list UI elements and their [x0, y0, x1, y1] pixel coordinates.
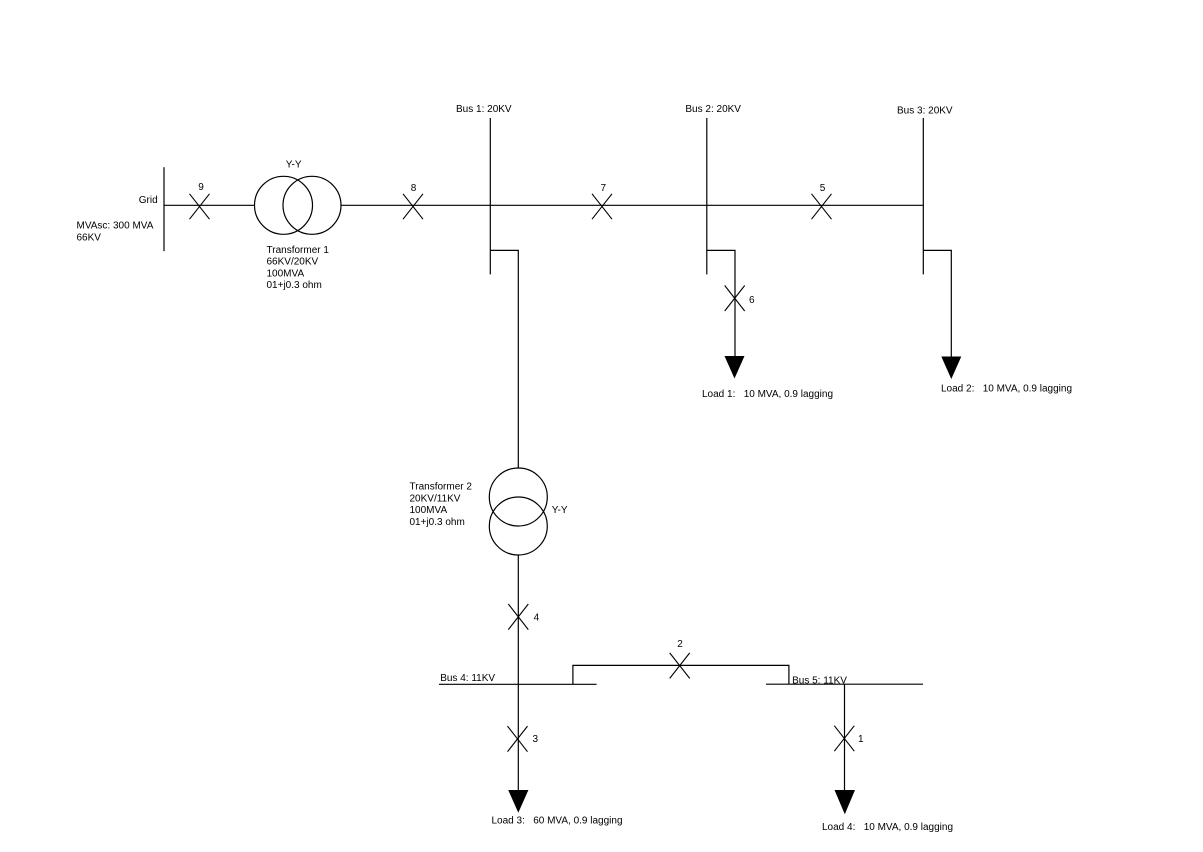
svg-text:Y-Y: Y-Y	[286, 160, 302, 171]
svg-text:1: 1	[858, 734, 864, 745]
breaker 9	[190, 194, 210, 219]
svg-text:Bus 4: 11KV: Bus 4: 11KV	[440, 673, 495, 684]
bus 4	[439, 683, 597, 685]
load 4 arrow	[835, 790, 856, 814]
svg-text:66KV/20KV: 66KV/20KV	[267, 257, 319, 268]
svg-text:4: 4	[534, 612, 540, 623]
transformer T2	[489, 468, 547, 555]
svg-text:Load 3: 60 MVA, 0.9 lagging: Load 3: 60 MVA, 0.9 lagging	[492, 816, 623, 827]
bus 1	[489, 118, 491, 274]
svg-text:20KV/11KV: 20KV/11KV	[410, 493, 461, 504]
wire bus 2 to bus 3	[707, 204, 924, 206]
load 3 arrow	[508, 790, 528, 813]
wire transformer 2 to bus 4	[517, 555, 519, 684]
breaker 5	[812, 194, 832, 219]
bus 5	[766, 683, 923, 685]
svg-text:Bus 1: 20KV: Bus 1: 20KV	[456, 104, 512, 115]
svg-text:Bus 3: 20KV: Bus 3: 20KV	[897, 106, 953, 117]
tie line bus 4 to bus 5	[573, 665, 789, 684]
svg-text:2: 2	[677, 639, 683, 650]
svg-text:Load 4: 10 MVA, 0.9 lagging: Load 4: 10 MVA, 0.9 lagging	[822, 822, 953, 833]
load 1 arrow	[725, 356, 745, 379]
bus 2	[706, 118, 708, 274]
svg-text:Bus 5: 11KV: Bus 5: 11KV	[792, 676, 847, 687]
svg-text:100MVA: 100MVA	[267, 268, 305, 279]
svg-text:01+j0.3 ohm: 01+j0.3 ohm	[410, 517, 465, 528]
transformer 2 value label	[410, 482, 473, 528]
wire bus 1 to bus 2	[490, 204, 707, 206]
transformer 1 value label	[267, 245, 330, 291]
wire bus 5 to load 4	[844, 684, 846, 790]
svg-text:6: 6	[749, 295, 755, 306]
breaker 2	[670, 653, 690, 679]
breaker 1	[834, 726, 854, 752]
wire grid to transformer 1	[164, 204, 255, 206]
wire bus 3 to load 2	[923, 250, 951, 356]
grid source bar	[163, 167, 165, 251]
wire transformer 1 to bus 1	[341, 204, 490, 206]
svg-text:MVAsc: 300 MVA: MVAsc: 300 MVA	[77, 220, 154, 231]
svg-text:3: 3	[533, 734, 539, 745]
breaker 6	[725, 286, 745, 312]
wire bus 1 to transformer 2	[490, 250, 518, 468]
breaker 3	[508, 726, 528, 752]
svg-text:Bus 2: 20KV: Bus 2: 20KV	[685, 104, 741, 115]
breaker 8	[403, 194, 423, 219]
svg-text:8: 8	[411, 183, 417, 194]
bus 3	[922, 118, 924, 274]
breaker 4	[508, 604, 528, 630]
svg-text:01+j0.3 ohm: 01+j0.3 ohm	[267, 280, 322, 291]
load 2 arrow	[941, 357, 961, 380]
wire bus 4 to load 3	[517, 684, 519, 790]
svg-text:Grid: Grid	[139, 195, 158, 206]
svg-text:9: 9	[198, 182, 204, 193]
svg-text:5: 5	[820, 183, 826, 194]
svg-text:Load 1: 10 MVA, 0.9 lagging: Load 1: 10 MVA, 0.9 lagging	[702, 389, 833, 400]
wire bus 2 to load 1	[707, 250, 735, 356]
svg-text:7: 7	[601, 183, 607, 194]
breaker 7	[592, 194, 612, 219]
svg-text:Transformer 1: Transformer 1	[267, 245, 330, 256]
svg-text:66KV: 66KV	[77, 232, 102, 243]
transformer T1	[255, 176, 342, 234]
svg-text:Y-Y: Y-Y	[552, 505, 568, 516]
svg-text:Transformer 2: Transformer 2	[410, 482, 473, 493]
svg-text:Load 2: 10 MVA, 0.9 lagging: Load 2: 10 MVA, 0.9 lagging	[941, 383, 1072, 394]
svg-text:100MVA: 100MVA	[410, 505, 448, 516]
